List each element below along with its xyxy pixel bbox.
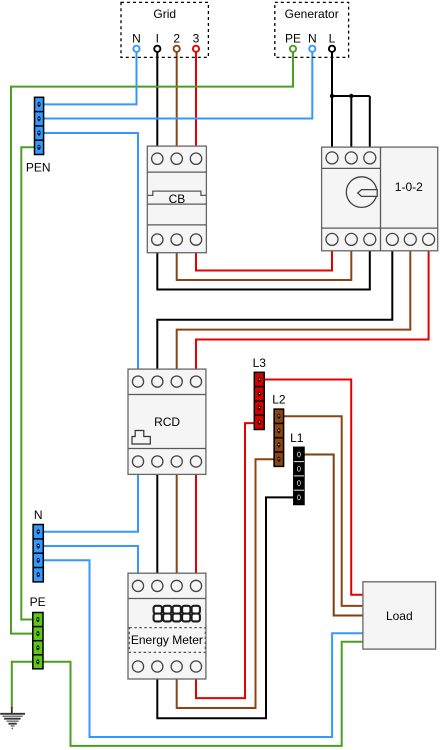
svg-text:N: N	[34, 508, 43, 522]
svg-text:1-0-2: 1-0-2	[395, 180, 423, 194]
svg-text:L3: L3	[253, 356, 267, 370]
svg-text:PE: PE	[30, 595, 46, 609]
svg-text:3: 3	[193, 31, 200, 45]
svg-text:PE: PE	[285, 31, 301, 45]
svg-text:N: N	[132, 31, 141, 45]
svg-text:Energy Meter: Energy Meter	[131, 633, 203, 647]
svg-text:L2: L2	[272, 393, 286, 407]
svg-text:Load: Load	[386, 609, 413, 623]
svg-text:Generator: Generator	[285, 7, 339, 21]
svg-text:Grid: Grid	[153, 7, 176, 21]
svg-text:N: N	[308, 31, 317, 45]
svg-text:PEN: PEN	[26, 161, 51, 175]
svg-text:2: 2	[173, 31, 180, 45]
svg-text:CB: CB	[169, 192, 186, 206]
svg-text:I: I	[156, 31, 159, 45]
svg-text:L1: L1	[290, 431, 304, 445]
svg-text:RCD: RCD	[154, 415, 180, 429]
svg-text:L: L	[329, 31, 336, 45]
